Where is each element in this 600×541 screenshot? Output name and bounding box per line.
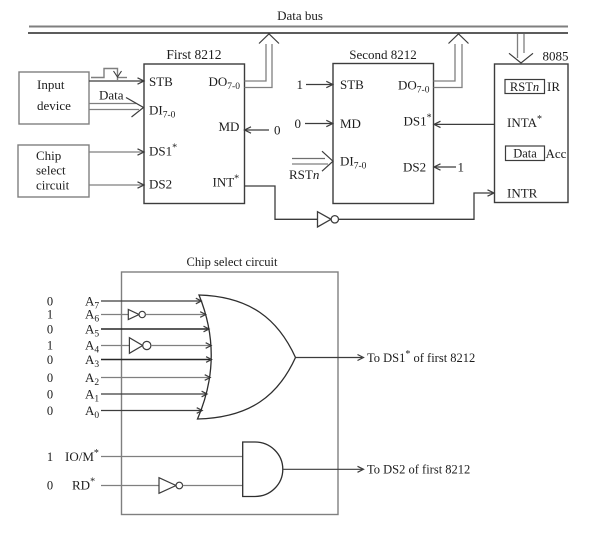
svg-text:IR: IR [547,79,560,94]
svg-text:1: 1 [47,339,53,353]
svg-text:First 8212: First 8212 [166,47,221,62]
wire A0 [101,410,201,412]
wire RSTn to DI7-0 of second 8212 (double line) [292,158,325,160]
wire data bus lower line [28,32,568,34]
wire A6 inverter to OR gate [145,314,204,316]
wire A5 [101,328,208,330]
svg-text:0: 0 [47,371,53,385]
AND gate (2-input) [243,442,283,497]
wire A6 to inverter [101,314,128,316]
wire DS2 from chip select [89,184,143,186]
svg-text:DS2: DS2 [149,177,172,192]
svg-text:DI7-0: DI7-0 [340,154,367,172]
wire OR gate output to DS1* [296,357,363,359]
svg-text:8085: 8085 [543,49,569,64]
inverter on A4 [129,338,142,354]
wire INTA* of 8085 to DS1* of second 8212 [435,123,495,125]
svg-text:Acc: Acc [546,146,567,161]
inverter on RD* [159,478,176,494]
svg-text:device: device [37,98,71,113]
svg-text:Second 8212: Second 8212 [349,47,417,62]
wire A4 to inverter [101,345,129,347]
svg-text:MD: MD [340,116,361,131]
OR gate (8-input) [198,295,296,419]
svg-text:INTR: INTR [507,186,538,201]
wire DS1 from chip select [89,151,143,153]
svg-text:A2: A2 [85,370,99,388]
svg-text:Data bus: Data bus [277,8,323,23]
svg-text:INT*: INT* [213,174,240,190]
svg-text:DO7-0: DO7-0 [398,78,430,96]
svg-text:RSTn: RSTn [289,167,319,182]
svg-text:1: 1 [47,308,53,322]
svg-text:0: 0 [47,295,53,309]
svg-text:A1: A1 [85,387,99,405]
svg-text:RSTn: RSTn [510,80,539,94]
svg-text:0: 0 [274,123,281,138]
IC Second 8212 [333,64,434,204]
node Data Acc register (8085) [506,146,545,161]
block Input device [19,72,89,124]
svg-text:Data: Data [513,147,537,161]
svg-text:0: 0 [47,479,53,493]
wire INT* of first 8212 to inverter [245,186,318,219]
IC First 8212 [144,64,245,204]
wire A7 [101,300,200,302]
svg-text:DS1*: DS1* [149,143,177,159]
svg-text:select: select [36,163,66,178]
node strobe pulse symbol [91,69,118,81]
wire STB from input device [89,80,143,82]
block chip select circuit boundary [122,272,339,515]
svg-text:DS1*: DS1* [404,113,432,129]
svg-text:STB: STB [340,77,364,92]
svg-text:0: 0 [47,388,53,402]
svg-text:A0: A0 [85,403,99,421]
wire IO/M* to AND gate [101,456,243,458]
svg-text:MD: MD [219,119,240,134]
svg-text:1: 1 [297,77,304,92]
svg-text:DO7-0: DO7-0 [209,74,241,92]
svg-text:To DS1* of first 8212: To DS1* of first 8212 [367,349,475,365]
wire Data bus from input device (double line) [89,103,136,105]
svg-text:STB: STB [149,74,173,89]
wire A3 [101,359,210,361]
svg-text:INTA*: INTA* [507,114,542,130]
wire data bus to 8085 (double line down arrow) [517,34,519,58]
wire RD* to inverter [101,485,159,487]
svg-text:Chip select circuit: Chip select circuit [187,255,278,269]
svg-text:circuit: circuit [36,178,70,193]
wire inverter output to INTR of 8085 [339,193,494,219]
svg-text:0: 0 [47,353,53,367]
inverter on A6 [128,310,139,320]
IC 8085 [495,64,569,203]
wire AND gate output to DS2 [283,468,362,470]
svg-text:0: 0 [47,323,53,337]
svg-text:1: 1 [458,160,465,175]
svg-text:Input: Input [37,77,65,92]
svg-text:To DS2 of first 8212: To DS2 of first 8212 [367,463,470,477]
inverter (INT* to INTR) [318,212,332,227]
wire MD input 0 (first 8212) [246,129,270,131]
svg-text:1: 1 [47,450,53,464]
svg-text:DI7-0: DI7-0 [149,103,176,121]
svg-text:DS2: DS2 [403,160,426,175]
wire A2 [101,377,209,379]
wire A1 [101,393,206,395]
node RSTn IR register (8085) [505,80,545,94]
wire RD* inverter to AND gate [183,485,243,487]
svg-text:Chip: Chip [36,148,61,163]
wire DO7-0 of second 8212 to data bus (double line) [434,44,456,81]
wire DO7-0 of first 8212 to data bus (double line) [245,44,267,81]
wire A4 inverter to OR gate [151,345,210,347]
svg-text:RD*: RD* [72,477,95,493]
svg-text:Data: Data [99,88,124,103]
svg-text:IO/M*: IO/M* [65,448,99,464]
block Chip select circuit (upper) [18,145,89,197]
svg-text:0: 0 [47,404,53,418]
wire data bus upper line [29,26,568,28]
svg-text:0: 0 [295,116,302,131]
